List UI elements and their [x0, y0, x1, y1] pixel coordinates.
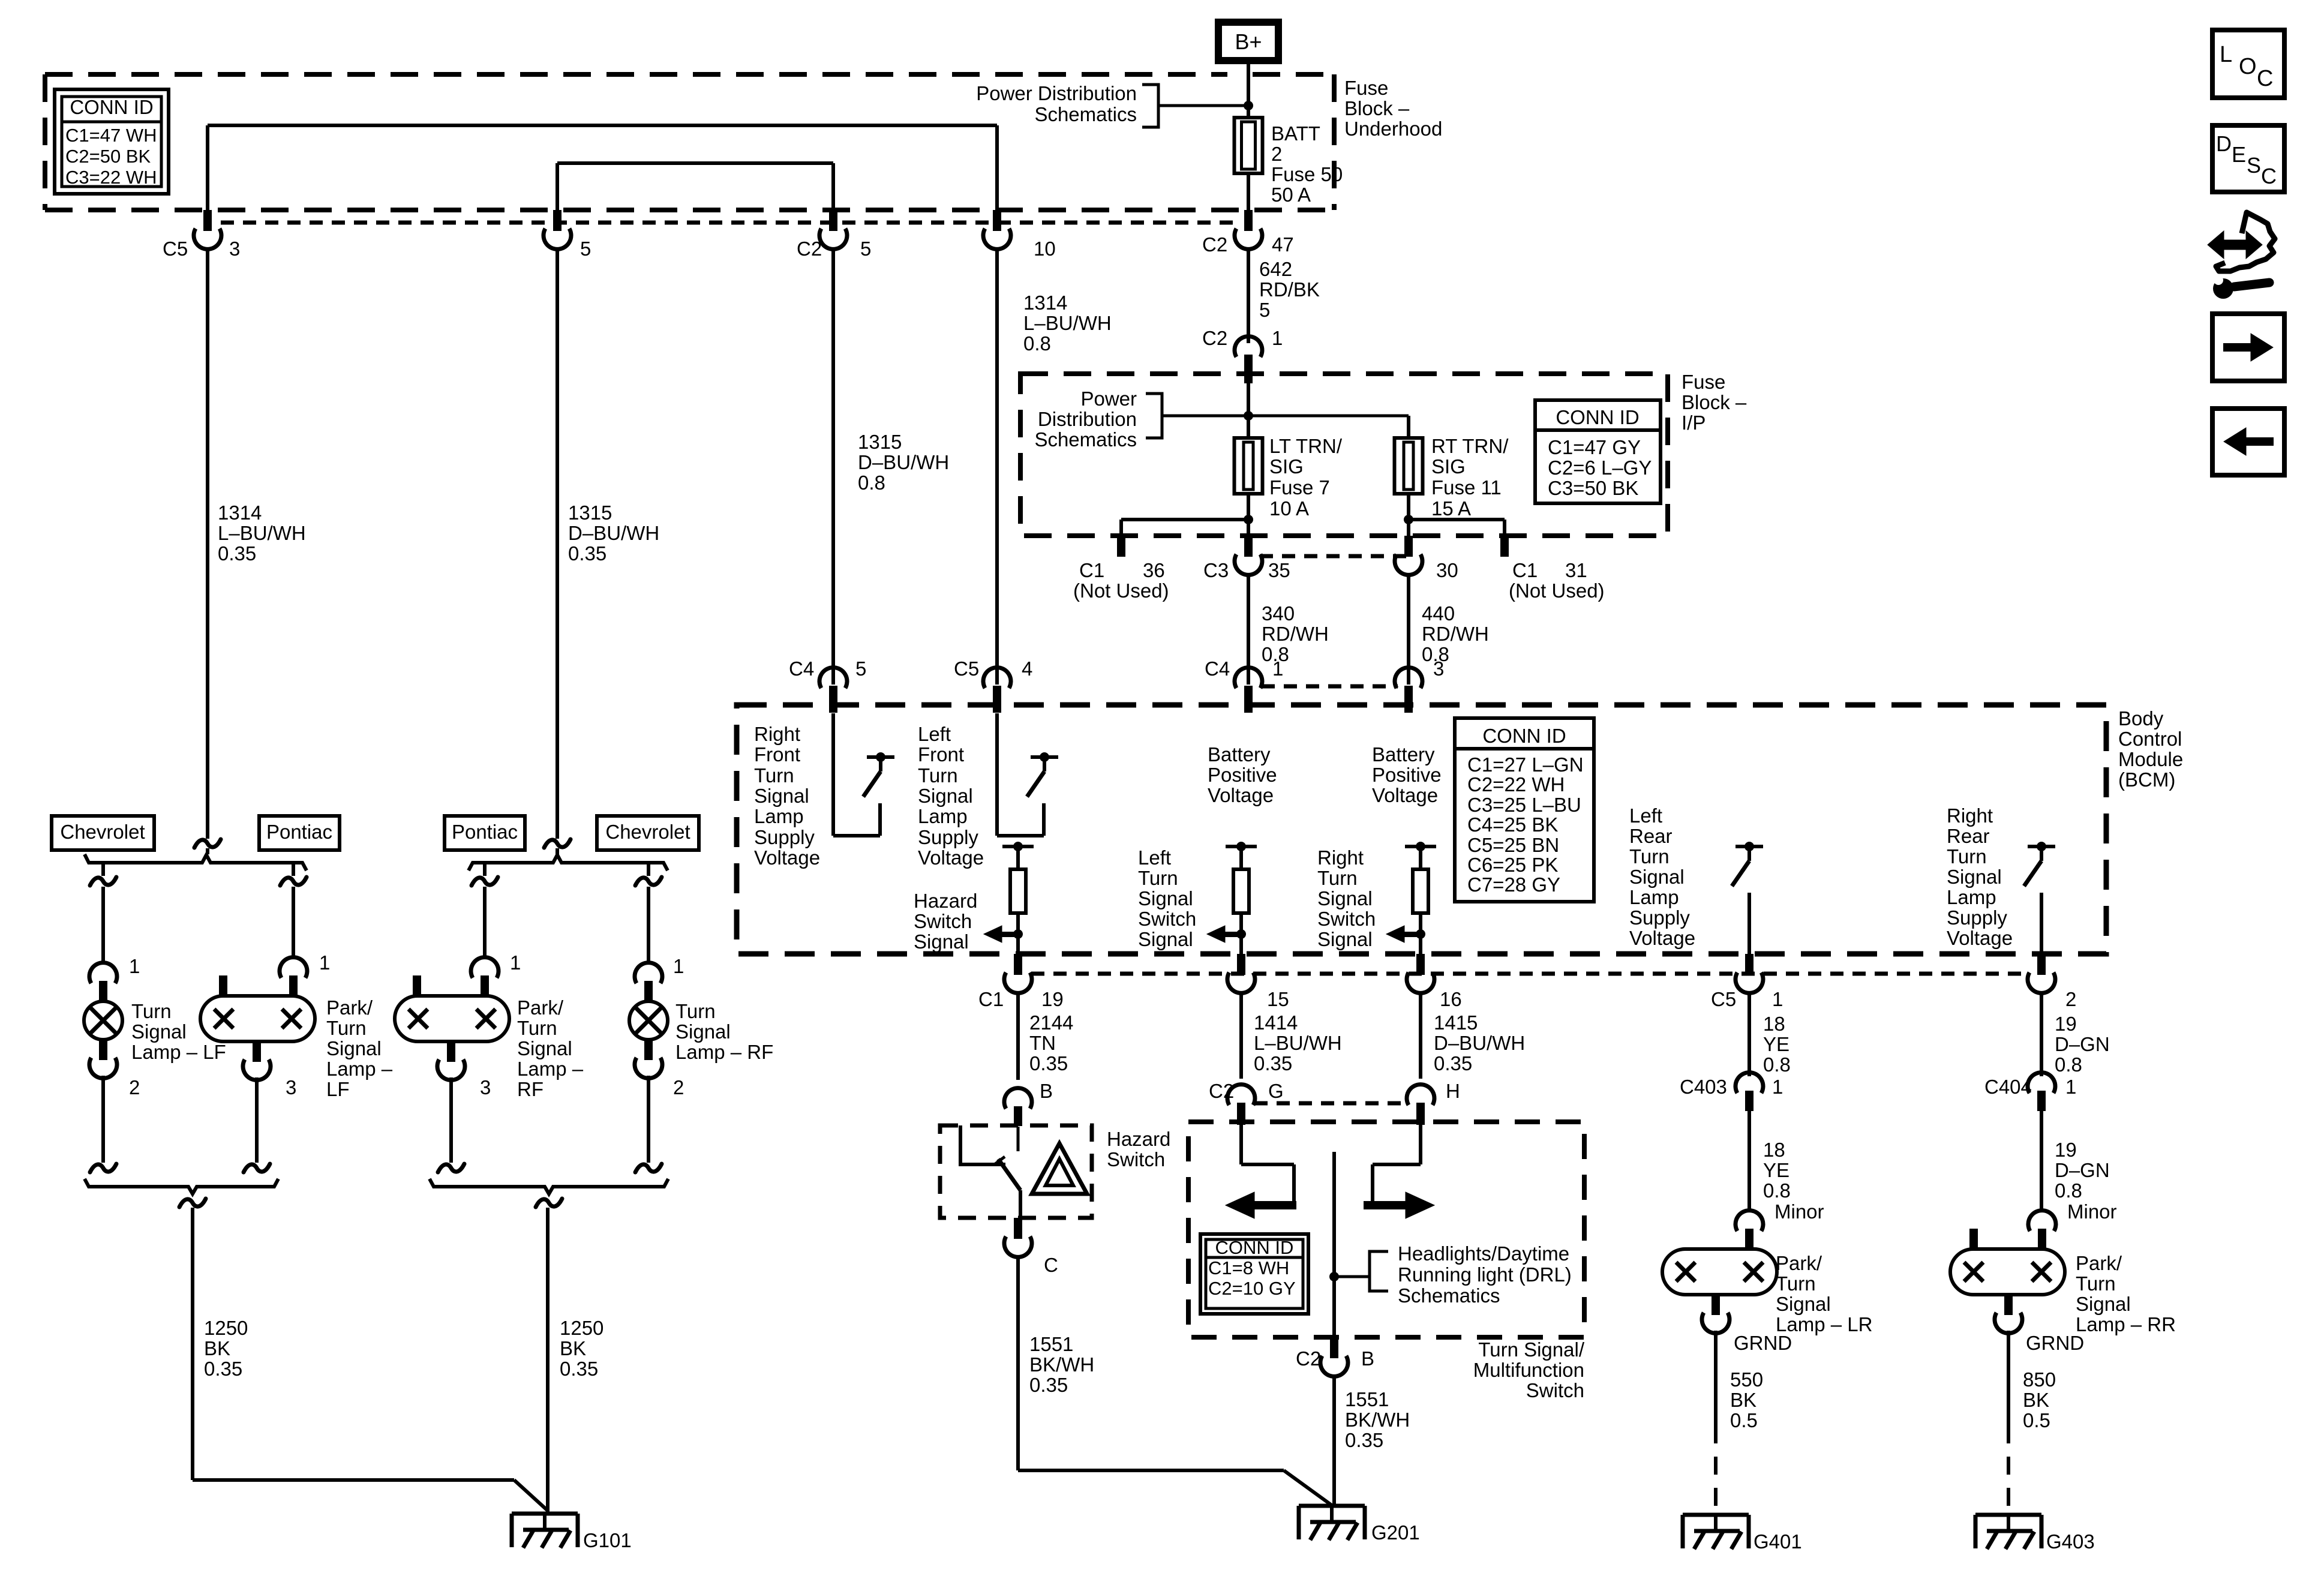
svg-text:BATT: BATT — [1271, 122, 1320, 145]
svg-text:Voltage: Voltage — [918, 846, 984, 869]
svg-text:Block –: Block – — [1682, 391, 1747, 413]
svg-text:Signal: Signal — [1317, 928, 1373, 950]
svg-text:Left: Left — [1138, 846, 1171, 869]
svg-text:C5=25 BN: C5=25 BN — [1467, 834, 1559, 856]
svg-text:1314: 1314 — [218, 502, 262, 524]
svg-text:0.35: 0.35 — [1254, 1052, 1292, 1074]
svg-text:Fuse: Fuse — [1344, 77, 1388, 99]
svg-text:CONN ID: CONN ID — [1482, 725, 1566, 747]
svg-text:340: 340 — [1262, 602, 1295, 625]
svg-text:Lamp: Lamp — [918, 805, 968, 827]
svg-text:D–BU/WH: D–BU/WH — [568, 522, 659, 544]
svg-text:SIG: SIG — [1431, 455, 1466, 478]
svg-text:5: 5 — [1259, 299, 1270, 321]
svg-text:Switch: Switch — [1138, 908, 1196, 930]
svg-text:D: D — [2216, 131, 2232, 156]
svg-text:Switch: Switch — [1526, 1379, 1584, 1401]
svg-text:LF: LF — [326, 1078, 350, 1100]
svg-text:Lamp – RR: Lamp – RR — [2076, 1313, 2176, 1335]
svg-text:1: 1 — [1272, 327, 1283, 349]
svg-text:Fuse: Fuse — [1682, 371, 1725, 393]
svg-text:0.8: 0.8 — [858, 472, 885, 494]
svg-text:Turn: Turn — [1947, 845, 1987, 867]
svg-text:0.8: 0.8 — [2055, 1179, 2082, 1202]
svg-text:Minor: Minor — [2067, 1200, 2117, 1223]
svg-text:Fuse 50: Fuse 50 — [1271, 163, 1343, 185]
svg-text:GRND: GRND — [1734, 1332, 1792, 1354]
svg-text:Supply: Supply — [1629, 906, 1690, 929]
svg-text:B: B — [1040, 1080, 1053, 1102]
svg-text:550: 550 — [1730, 1368, 1763, 1391]
svg-text:2: 2 — [129, 1076, 140, 1098]
svg-text:Fuse 11: Fuse 11 — [1431, 476, 1502, 499]
svg-text:2: 2 — [1271, 143, 1282, 165]
svg-text:C: C — [1044, 1254, 1058, 1276]
svg-text:Right: Right — [1317, 846, 1364, 869]
svg-text:16: 16 — [1440, 988, 1462, 1010]
svg-text:Voltage: Voltage — [1208, 784, 1274, 806]
svg-text:2144: 2144 — [1029, 1011, 1073, 1034]
svg-text:Body: Body — [2118, 707, 2164, 730]
svg-text:642: 642 — [1259, 258, 1292, 280]
svg-text:C2=6 L–GY: C2=6 L–GY — [1548, 457, 1652, 479]
svg-text:Lamp – RF: Lamp – RF — [675, 1041, 773, 1063]
svg-text:Left: Left — [918, 723, 951, 745]
svg-text:Front: Front — [754, 743, 800, 766]
svg-text:Distribution: Distribution — [1038, 408, 1137, 430]
svg-text:B: B — [1361, 1347, 1374, 1370]
svg-text:Underhood: Underhood — [1344, 118, 1442, 140]
svg-text:C1: C1 — [1512, 559, 1538, 581]
svg-text:3: 3 — [286, 1076, 296, 1098]
svg-text:CONN ID: CONN ID — [1215, 1237, 1294, 1258]
svg-text:5: 5 — [855, 658, 866, 680]
svg-text:Turn: Turn — [2076, 1272, 2116, 1295]
svg-text:1551: 1551 — [1029, 1333, 1073, 1355]
svg-text:1: 1 — [1272, 658, 1283, 680]
svg-text:E: E — [2232, 142, 2246, 167]
svg-text:(Not Used): (Not Used) — [1509, 580, 1605, 602]
svg-text:Park/: Park/ — [2076, 1252, 2122, 1274]
svg-text:I/P: I/P — [1682, 412, 1706, 434]
svg-text:Signal: Signal — [1947, 866, 2002, 888]
svg-text:Pontiac: Pontiac — [266, 821, 332, 843]
svg-text:G201: G201 — [1371, 1521, 1420, 1544]
svg-text:C4: C4 — [789, 658, 814, 680]
svg-text:RD/BK: RD/BK — [1259, 278, 1320, 301]
svg-text:C2: C2 — [1296, 1347, 1321, 1370]
svg-text:0.35: 0.35 — [1029, 1052, 1068, 1074]
svg-text:Chevrolet: Chevrolet — [605, 821, 690, 843]
svg-text:Hazard: Hazard — [1107, 1128, 1170, 1150]
svg-text:18: 18 — [1763, 1013, 1785, 1035]
svg-text:Turn: Turn — [1776, 1272, 1816, 1295]
svg-text:BK: BK — [2023, 1389, 2049, 1411]
svg-text:Voltage: Voltage — [1947, 927, 2013, 949]
svg-text:C1: C1 — [978, 988, 1004, 1010]
svg-text:Lamp: Lamp — [1629, 886, 1679, 908]
svg-text:0.35: 0.35 — [560, 1358, 598, 1380]
svg-text:1: 1 — [2065, 1076, 2076, 1098]
svg-text:RT TRN/: RT TRN/ — [1431, 435, 1509, 457]
svg-text:850: 850 — [2023, 1368, 2056, 1391]
svg-text:Running light (DRL): Running light (DRL) — [1398, 1263, 1572, 1286]
svg-text:C3=25 L–BU: C3=25 L–BU — [1467, 794, 1581, 816]
svg-text:0.5: 0.5 — [1730, 1409, 1758, 1431]
svg-text:C3=22 WH: C3=22 WH — [65, 167, 157, 188]
svg-text:1315: 1315 — [568, 502, 612, 524]
svg-text:Hazard: Hazard — [914, 890, 977, 912]
svg-text:BK/WH: BK/WH — [1029, 1353, 1094, 1376]
svg-text:1: 1 — [673, 955, 684, 977]
svg-text:Signal: Signal — [2076, 1293, 2131, 1315]
svg-text:Minor: Minor — [1774, 1200, 1824, 1223]
svg-text:C1=27 L–GN: C1=27 L–GN — [1467, 754, 1584, 776]
svg-text:Switch: Switch — [1107, 1148, 1165, 1170]
svg-text:G403: G403 — [2046, 1530, 2095, 1553]
svg-text:0.8: 0.8 — [2055, 1053, 2082, 1076]
svg-text:1314: 1314 — [1023, 292, 1067, 314]
svg-text:Schematics: Schematics — [1398, 1284, 1500, 1307]
svg-text:C404: C404 — [1984, 1076, 2032, 1098]
svg-text:19: 19 — [2055, 1013, 2077, 1035]
svg-text:YE: YE — [1763, 1033, 1789, 1055]
svg-text:BK: BK — [560, 1337, 586, 1359]
svg-text:S: S — [2247, 153, 2261, 178]
svg-text:Voltage: Voltage — [754, 846, 820, 869]
svg-text:0.35: 0.35 — [218, 542, 256, 565]
svg-text:Rear: Rear — [1629, 825, 1673, 847]
svg-text:C3=50 BK: C3=50 BK — [1548, 477, 1638, 499]
svg-text:Chevrolet: Chevrolet — [60, 821, 145, 843]
svg-text:35: 35 — [1268, 559, 1290, 581]
svg-text:TN: TN — [1029, 1032, 1056, 1054]
svg-text:15 A: 15 A — [1431, 497, 1471, 520]
svg-text:C3: C3 — [1203, 559, 1229, 581]
svg-text:RF: RF — [517, 1078, 544, 1100]
svg-text:Signal: Signal — [1317, 887, 1373, 909]
svg-text:47: 47 — [1272, 233, 1294, 256]
svg-text:H: H — [1446, 1080, 1460, 1102]
svg-text:B+: B+ — [1235, 29, 1262, 54]
svg-text:C2=22 WH: C2=22 WH — [1467, 773, 1565, 795]
svg-text:D–BU/WH: D–BU/WH — [1434, 1032, 1525, 1054]
svg-text:1: 1 — [129, 955, 140, 977]
svg-text:Multifunction: Multifunction — [1473, 1359, 1584, 1381]
svg-text:YE: YE — [1763, 1159, 1789, 1181]
svg-text:1: 1 — [1772, 1076, 1783, 1098]
svg-text:Lamp –: Lamp – — [517, 1058, 584, 1080]
svg-text:C5: C5 — [163, 238, 188, 260]
svg-text:5: 5 — [580, 238, 591, 260]
svg-text:19: 19 — [1041, 988, 1064, 1010]
svg-text:0.8: 0.8 — [1023, 332, 1051, 355]
svg-text:30: 30 — [1436, 559, 1458, 581]
svg-text:5: 5 — [860, 238, 871, 260]
svg-text:Left: Left — [1629, 804, 1662, 827]
svg-text:L–BU/WH: L–BU/WH — [1254, 1032, 1342, 1054]
svg-text:Lamp – LF: Lamp – LF — [131, 1041, 226, 1063]
svg-text:Park/: Park/ — [326, 996, 373, 1019]
svg-text:C: C — [2261, 164, 2277, 188]
svg-text:10 A: 10 A — [1269, 497, 1309, 520]
svg-text:RD/WH: RD/WH — [1422, 623, 1489, 645]
svg-text:Turn: Turn — [131, 1000, 172, 1022]
svg-text:1: 1 — [1772, 988, 1783, 1010]
svg-text:4: 4 — [1022, 658, 1032, 680]
svg-text:Voltage: Voltage — [1629, 927, 1695, 949]
svg-text:1315: 1315 — [858, 431, 902, 453]
svg-text:RD/WH: RD/WH — [1262, 623, 1329, 645]
svg-text:C7=28 GY: C7=28 GY — [1467, 873, 1560, 896]
svg-text:Turn: Turn — [918, 764, 958, 786]
svg-text:Right: Right — [754, 723, 800, 745]
svg-text:Module: Module — [2118, 748, 2183, 770]
svg-text:BK: BK — [1730, 1389, 1756, 1411]
svg-text:Front: Front — [918, 743, 964, 766]
svg-text:Signal: Signal — [914, 930, 969, 953]
svg-text:Supply: Supply — [754, 826, 815, 848]
svg-text:C1: C1 — [1079, 559, 1104, 581]
svg-text:18: 18 — [1763, 1139, 1785, 1161]
svg-text:BK: BK — [204, 1337, 230, 1359]
svg-text:Rear: Rear — [1947, 825, 1990, 847]
svg-text:C1=8 WH: C1=8 WH — [1208, 1257, 1289, 1278]
svg-text:Signal: Signal — [675, 1020, 731, 1043]
svg-text:1250: 1250 — [560, 1317, 603, 1339]
svg-text:Turn: Turn — [675, 1000, 716, 1022]
svg-text:Signal: Signal — [754, 785, 809, 807]
svg-text:0.35: 0.35 — [1345, 1429, 1383, 1451]
svg-text:C1=47 WH: C1=47 WH — [65, 125, 157, 146]
svg-text:Turn: Turn — [1629, 845, 1670, 867]
svg-text:D–GN: D–GN — [2055, 1033, 2110, 1055]
svg-text:Switch: Switch — [1317, 908, 1376, 930]
svg-text:BK/WH: BK/WH — [1345, 1409, 1410, 1431]
svg-text:C5: C5 — [954, 658, 979, 680]
svg-text:Positive: Positive — [1372, 764, 1442, 786]
svg-text:Park/: Park/ — [517, 996, 564, 1019]
svg-text:0.8: 0.8 — [1763, 1053, 1791, 1076]
svg-text:C: C — [2257, 66, 2273, 91]
svg-text:GRND: GRND — [2026, 1332, 2084, 1354]
svg-text:0.35: 0.35 — [568, 542, 606, 565]
svg-text:1551: 1551 — [1345, 1388, 1389, 1410]
svg-text:1414: 1414 — [1254, 1011, 1298, 1034]
svg-text:L: L — [2220, 42, 2232, 67]
svg-text:Headlights/Daytime: Headlights/Daytime — [1398, 1242, 1569, 1265]
svg-text:Turn: Turn — [517, 1017, 557, 1039]
svg-text:CONN ID: CONN ID — [70, 96, 153, 118]
svg-text:Switch: Switch — [914, 910, 972, 932]
svg-text:Power: Power — [1080, 388, 1137, 410]
svg-text:C2=10 GY: C2=10 GY — [1208, 1278, 1296, 1299]
svg-text:0.35: 0.35 — [1029, 1374, 1068, 1396]
svg-text:Signal: Signal — [1776, 1293, 1831, 1315]
svg-text:Turn: Turn — [754, 764, 794, 786]
svg-text:SIG: SIG — [1269, 455, 1304, 478]
svg-text:CONN ID: CONN ID — [1556, 406, 1639, 428]
svg-text:440: 440 — [1422, 602, 1455, 625]
svg-text:G101: G101 — [583, 1529, 632, 1551]
svg-text:19: 19 — [2055, 1139, 2077, 1161]
svg-text:Block –: Block – — [1344, 97, 1410, 119]
svg-text:Lamp: Lamp — [754, 805, 804, 827]
svg-text:Turn: Turn — [1317, 867, 1358, 889]
svg-text:Lamp –: Lamp – — [326, 1058, 393, 1080]
svg-text:C1=47 GY: C1=47 GY — [1548, 436, 1641, 458]
svg-text:3: 3 — [229, 238, 240, 260]
svg-text:1: 1 — [319, 951, 330, 974]
svg-text:Signal: Signal — [1629, 866, 1685, 888]
svg-text:L–BU/WH: L–BU/WH — [218, 522, 306, 544]
svg-text:15: 15 — [1267, 988, 1289, 1010]
svg-text:31: 31 — [1565, 559, 1587, 581]
svg-text:Battery: Battery — [1208, 743, 1271, 766]
svg-text:Fuse 7: Fuse 7 — [1269, 476, 1330, 499]
svg-text:Pontiac: Pontiac — [452, 821, 518, 843]
svg-text:C2: C2 — [1202, 233, 1227, 256]
svg-text:C403: C403 — [1680, 1076, 1727, 1098]
svg-text:10: 10 — [1034, 238, 1056, 260]
svg-text:L–BU/WH: L–BU/WH — [1023, 312, 1112, 334]
svg-text:C6=25 PK: C6=25 PK — [1467, 854, 1558, 876]
svg-text:(Not Used): (Not Used) — [1073, 580, 1169, 602]
svg-text:Park/: Park/ — [1776, 1252, 1822, 1274]
svg-text:Signal: Signal — [326, 1037, 382, 1059]
svg-text:C2: C2 — [1202, 327, 1227, 349]
svg-text:D–BU/WH: D–BU/WH — [858, 451, 949, 473]
svg-text:Battery: Battery — [1372, 743, 1435, 766]
svg-text:0.8: 0.8 — [1763, 1179, 1791, 1202]
svg-text:Signal: Signal — [517, 1037, 572, 1059]
svg-text:Turn: Turn — [1138, 867, 1178, 889]
svg-text:1415: 1415 — [1434, 1011, 1478, 1034]
svg-text:LT TRN/: LT TRN/ — [1269, 435, 1343, 457]
svg-text:Schematics: Schematics — [1034, 428, 1137, 451]
svg-text:Supply: Supply — [1947, 906, 2007, 929]
svg-text:Positive: Positive — [1208, 764, 1277, 786]
svg-text:C2: C2 — [797, 238, 822, 260]
svg-text:Signal: Signal — [918, 785, 973, 807]
svg-text:1: 1 — [510, 951, 521, 974]
svg-text:C5: C5 — [1711, 988, 1736, 1010]
svg-text:G: G — [1268, 1080, 1284, 1102]
svg-text:Signal: Signal — [1138, 928, 1193, 950]
svg-text:C4: C4 — [1205, 658, 1230, 680]
svg-text:2: 2 — [673, 1076, 684, 1098]
svg-text:Voltage: Voltage — [1372, 784, 1438, 806]
svg-text:Signal: Signal — [131, 1020, 187, 1043]
svg-text:Turn: Turn — [326, 1017, 367, 1039]
svg-text:Control: Control — [2118, 728, 2182, 750]
svg-text:Power Distribution: Power Distribution — [976, 82, 1137, 104]
svg-text:Right: Right — [1947, 804, 1993, 827]
svg-text:3: 3 — [1433, 658, 1444, 680]
svg-text:C4=25 BK: C4=25 BK — [1467, 813, 1558, 836]
svg-text:2: 2 — [2065, 988, 2076, 1010]
svg-text:0.35: 0.35 — [1434, 1052, 1472, 1074]
svg-text:G401: G401 — [1753, 1530, 1802, 1553]
svg-text:0.35: 0.35 — [204, 1358, 242, 1380]
svg-text:1250: 1250 — [204, 1317, 248, 1339]
svg-text:C2=50 BK: C2=50 BK — [65, 146, 151, 167]
svg-text:3: 3 — [480, 1076, 491, 1098]
svg-text:Signal: Signal — [1138, 887, 1193, 909]
svg-text:36: 36 — [1143, 559, 1165, 581]
svg-text:O: O — [2239, 54, 2257, 79]
svg-text:(BCM): (BCM) — [2118, 769, 2175, 791]
svg-text:D–GN: D–GN — [2055, 1159, 2110, 1181]
svg-text:Supply: Supply — [918, 826, 978, 848]
svg-text:50 A: 50 A — [1271, 184, 1311, 206]
svg-text:Schematics: Schematics — [1034, 103, 1137, 125]
svg-text:Lamp: Lamp — [1947, 886, 1996, 908]
svg-text:0.5: 0.5 — [2023, 1409, 2050, 1431]
svg-text:Turn Signal/: Turn Signal/ — [1478, 1338, 1585, 1361]
